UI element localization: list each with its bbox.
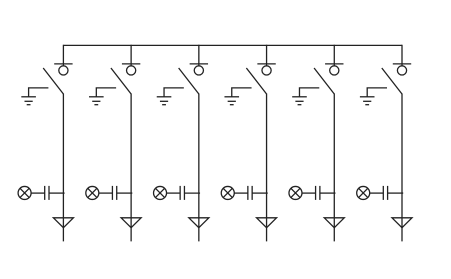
disconnector blade (open), branch 1: [43, 68, 63, 94]
disconnector blade (open), branch 5: [314, 68, 334, 94]
disconnector fixed-contact bar, branch 2: [122, 63, 140, 65]
busbar (top horizontal bus): [63, 44, 402, 46]
disconnector fixed contact circle, branch 4: [262, 66, 271, 75]
wire: lamp to capacitor, branch 1: [31, 192, 45, 194]
disconnector blade (open), branch 4: [246, 68, 266, 94]
earthing switch arm, branch 5: [299, 88, 319, 97]
capacitor (coupling), branch 2: [112, 186, 116, 200]
wire: lamp to capacitor, branch 3: [167, 192, 181, 194]
branch 4: [221, 45, 276, 242]
indicator lamp (circle with X), branch 6: [357, 186, 370, 199]
wire: bus drop to disconnector fixed contact, branch 3: [198, 45, 200, 66]
branch 5: [289, 45, 344, 242]
wire: bus drop to disconnector fixed contact, branch 1: [62, 45, 64, 66]
wire: capacitor to feeder, branch 6: [388, 192, 404, 194]
disconnector fixed-contact bar, branch 3: [190, 63, 208, 65]
cable arrow (open triangle), branch 2: [121, 218, 141, 228]
wire: bus drop to disconnector fixed contact, branch 6: [401, 45, 403, 66]
indicator lamp (circle with X), branch 4: [221, 186, 234, 199]
ground, branch 6: [360, 97, 375, 105]
disconnector fixed-contact bar, branch 5: [325, 63, 343, 65]
earthing switch arm, branch 2: [96, 88, 116, 97]
disconnector fixed contact circle, branch 5: [330, 66, 339, 75]
earthing switch arm, branch 1: [29, 88, 49, 97]
wire: feeder vertical, branch 3: [198, 94, 200, 242]
wire: feeder vertical, branch 6: [401, 94, 403, 242]
cable arrow (open triangle), branch 6: [392, 218, 412, 228]
disconnector blade (open), branch 6: [382, 68, 402, 94]
wire: bus drop to disconnector fixed contact, branch 2: [130, 45, 132, 66]
wire: capacitor to feeder, branch 5: [320, 192, 336, 194]
wire: lamp to capacitor, branch 5: [302, 192, 316, 194]
disconnector fixed-contact bar, branch 4: [257, 63, 275, 65]
indicator lamp (circle with X), branch 3: [154, 186, 167, 199]
disconnector fixed contact circle, branch 1: [59, 66, 68, 75]
ground, branch 3: [157, 97, 172, 105]
wire: capacitor to feeder, branch 1: [49, 192, 65, 194]
disconnector fixed contact circle, branch 3: [194, 66, 203, 75]
wire: feeder vertical, branch 2: [130, 94, 132, 242]
ground, branch 2: [89, 97, 104, 105]
earthing switch arm, branch 6: [367, 88, 387, 97]
cable arrow (open triangle), branch 5: [324, 218, 344, 228]
disconnector fixed contact circle, branch 2: [127, 66, 136, 75]
wire: lamp to capacitor, branch 6: [370, 192, 384, 194]
disconnector fixed contact circle, branch 6: [397, 66, 406, 75]
cable arrow (open triangle), branch 3: [189, 218, 209, 228]
earthing switch arm, branch 4: [232, 88, 252, 97]
disconnector fixed-contact bar, branch 1: [54, 63, 72, 65]
capacitor (coupling), branch 4: [248, 186, 252, 200]
cable arrow (open triangle), branch 4: [257, 218, 277, 228]
ground, branch 4: [224, 97, 239, 105]
disconnector blade (open), branch 3: [179, 68, 199, 94]
capacitor (coupling), branch 5: [316, 186, 320, 200]
indicator lamp (circle with X), branch 1: [18, 186, 31, 199]
wire: capacitor to feeder, branch 4: [252, 192, 268, 194]
cable arrow (open triangle), branch 1: [53, 218, 73, 228]
wire: bus drop to disconnector fixed contact, branch 4: [266, 45, 268, 66]
ground, branch 5: [292, 97, 307, 105]
indicator lamp (circle with X), branch 2: [86, 186, 99, 199]
indicator lamp (circle with X), branch 5: [289, 186, 302, 199]
disconnector blade (open), branch 2: [111, 68, 131, 94]
wire: lamp to capacitor, branch 2: [99, 192, 113, 194]
wire: bus drop to disconnector fixed contact, branch 5: [333, 45, 335, 66]
branch 6: [357, 45, 412, 242]
branch 3: [154, 45, 209, 242]
wire: feeder vertical, branch 5: [333, 94, 335, 242]
capacitor (coupling), branch 1: [45, 186, 49, 200]
wire: capacitor to feeder, branch 3: [184, 192, 200, 194]
wire: lamp to capacitor, branch 4: [234, 192, 248, 194]
ground, branch 1: [21, 97, 36, 105]
branch 1: [18, 45, 73, 242]
branch 2: [86, 45, 141, 242]
wire: feeder vertical, branch 4: [266, 94, 268, 242]
disconnector fixed-contact bar, branch 6: [393, 63, 411, 65]
capacitor (coupling), branch 3: [180, 186, 184, 200]
earthing switch arm, branch 3: [164, 88, 184, 97]
wire: feeder vertical, branch 1: [62, 94, 64, 242]
wire: capacitor to feeder, branch 2: [117, 192, 133, 194]
capacitor (coupling), branch 6: [383, 186, 387, 200]
